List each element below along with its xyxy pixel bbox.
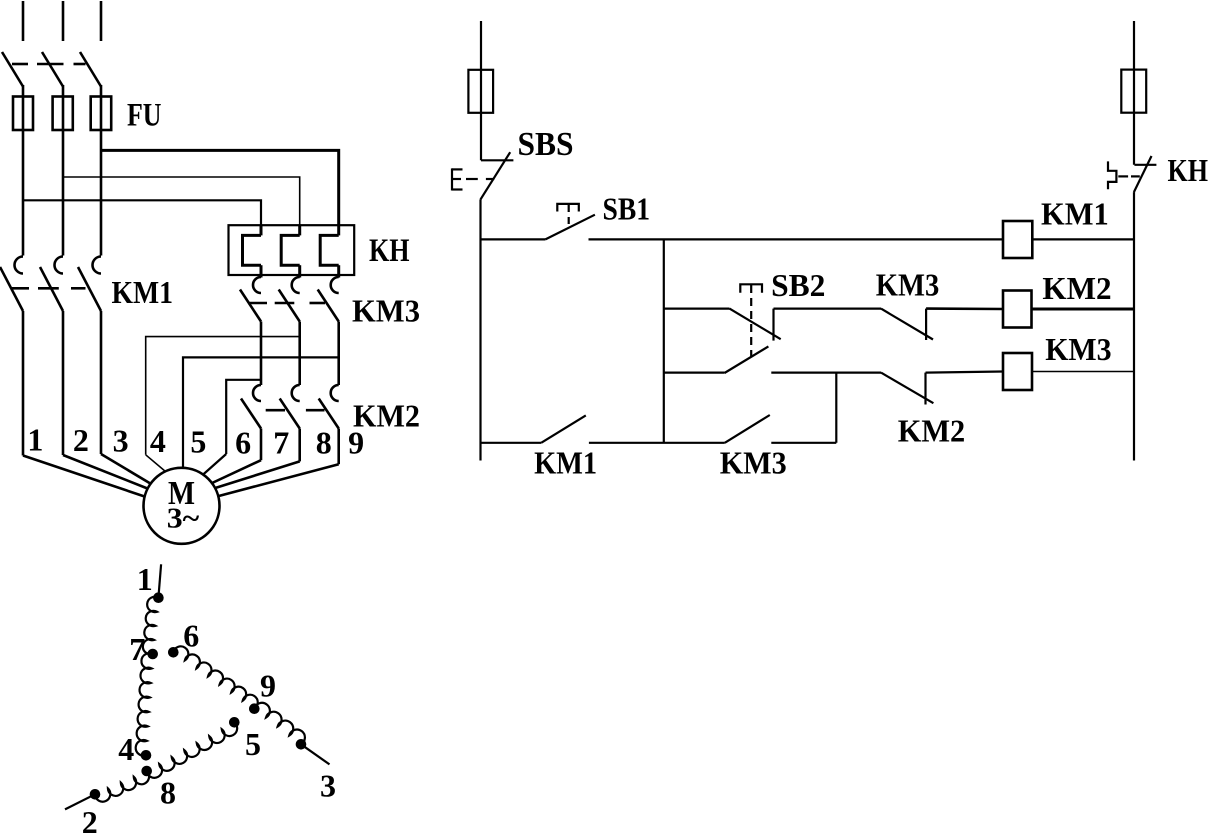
node terminal 7 [147, 649, 158, 660]
pushbutton SB1 actuator [557, 204, 579, 227]
wire pole1 through fuse [22, 85, 25, 256]
pushbutton SB2 NO blade (rung3) [725, 346, 769, 373]
wire right control rail [1133, 192, 1135, 460]
svg-text:1: 1 [27, 422, 43, 458]
node terminal 3 [296, 739, 307, 750]
svg-text:KH: KH [1168, 152, 1208, 188]
KH actuator dashed link [1118, 175, 1140, 177]
wire L2 supply stub [62, 1, 65, 41]
wire L1 supply stub [22, 1, 25, 41]
wire motor lead 1 [23, 311, 152, 499]
wire winding terminal 3 tail [301, 744, 330, 764]
svg-text:3: 3 [113, 423, 129, 459]
fuse FU pole 1 [13, 97, 33, 131]
svg-text:KM3: KM3 [1045, 331, 1111, 367]
wire rung2 left [664, 308, 730, 310]
winding coil 9 to 3 [254, 703, 305, 744]
coil KM3 [1003, 353, 1032, 390]
svg-text:7: 7 [129, 631, 145, 667]
wire motor lead 3 [101, 311, 152, 485]
pushbutton SB2 NC blade (rung2) [730, 309, 781, 340]
E dashed link [466, 178, 494, 180]
wire left control rail top [480, 21, 482, 160]
wire branch pole2 to KH element 2 [63, 177, 300, 226]
contactor KM2 main contact pole 1 [241, 385, 261, 429]
KH heater element 3 [320, 226, 339, 278]
wire rung3 middle [771, 372, 881, 374]
wire bottom rung left [481, 442, 542, 444]
contact KM2 NC (rung3) [881, 373, 933, 405]
KM1 linkage dashed line [12, 287, 86, 290]
contact KH NC (right rail) [1134, 156, 1157, 192]
wire rung3 left [664, 372, 725, 374]
wire rung3 to coil KM3 [926, 372, 1004, 373]
wire tap to motor lead 4 [146, 337, 300, 477]
svg-text:KM3: KM3 [720, 445, 787, 481]
node terminal 9 [249, 703, 260, 714]
node terminal 4 [141, 750, 152, 761]
svg-text:1: 1 [137, 561, 153, 597]
svg-text:KM1: KM1 [112, 274, 174, 310]
svg-text:9: 9 [348, 425, 364, 461]
svg-text:6: 6 [183, 618, 199, 654]
contact KM1 NO (bottom rung) blade [541, 415, 586, 442]
svg-text:3: 3 [320, 768, 336, 804]
KM3 linkage dashed line [248, 302, 325, 305]
wire bottom rung middle [589, 442, 725, 444]
svg-text:KM2: KM2 [898, 413, 966, 449]
disconnect switch QS pole 3 blade [80, 52, 101, 87]
svg-text:SB1: SB1 [603, 191, 651, 227]
contactor KM2 main contact pole 3 [319, 385, 339, 429]
svg-text:7: 7 [273, 425, 289, 461]
wire motor lead 9 [215, 429, 339, 498]
svg-text:KM3: KM3 [352, 293, 420, 329]
svg-text:KM3: KM3 [876, 267, 940, 303]
pushbutton SB2 actuator [740, 284, 762, 356]
fuse FU control left [468, 70, 493, 113]
svg-text:KM1: KM1 [1041, 196, 1109, 232]
svg-text:KH: KH [369, 233, 410, 269]
fuse FU control right [1121, 70, 1146, 113]
svg-text:KM2: KM2 [1042, 270, 1111, 306]
svg-text:FU: FU [127, 98, 162, 134]
svg-text:5: 5 [190, 424, 206, 460]
svg-text:8: 8 [316, 425, 332, 461]
disconnect switch QS linkage dashed line [12, 63, 86, 66]
node terminal 8 [141, 766, 152, 777]
KH heater element 2 [281, 226, 300, 278]
node terminal 2 [90, 789, 101, 800]
wire branch vertical after SB1 [663, 239, 665, 442]
svg-text:4: 4 [150, 423, 166, 459]
svg-text:2: 2 [73, 422, 89, 458]
KH thermal actuator hook [1108, 161, 1116, 189]
wire branch pole3 to KH element 3 [101, 150, 339, 226]
switch SBS [481, 152, 514, 199]
disconnect switch QS pole 1 blade [2, 52, 23, 87]
KM2 linkage dashed line [266, 409, 325, 412]
wire right control rail top [1133, 21, 1135, 165]
wire branch pole1 to KH element 1 [23, 200, 261, 226]
wire winding terminal 1 tail [158, 564, 161, 597]
contactor KM3 main contact pole 1 [240, 277, 261, 322]
wire KM3 pole3 down to KM2 pole3 [337, 322, 340, 386]
wire rung1 to coil KM1 [589, 238, 1004, 240]
wire coil KM1 to right rail [1032, 238, 1134, 240]
contactor KM2 main contact pole 2 [280, 385, 300, 429]
node terminal 1 [153, 592, 164, 603]
wire winding terminal 2 tail [65, 794, 95, 809]
svg-text:9: 9 [260, 668, 276, 704]
fuse FU pole 3 [91, 97, 112, 131]
wire riser to rung3 [835, 373, 837, 443]
svg-text:4: 4 [118, 731, 134, 767]
svg-text:3~: 3~ [167, 503, 200, 535]
wire coil KM2 to right rail [1032, 308, 1135, 311]
winding coil 8 to 5 [147, 722, 237, 778]
wire rung2 middle [774, 308, 882, 310]
svg-text:6: 6 [235, 425, 251, 461]
node terminal 6 [168, 647, 179, 658]
wire tap to motor lead 5 [183, 357, 339, 475]
svg-text:KM1: KM1 [534, 445, 597, 481]
contact KM3 NO (bottom rung) blade [725, 415, 770, 443]
contactor KM3 main contact pole 3 [318, 277, 339, 322]
svg-text:SBS: SBS [518, 126, 574, 163]
fuse FU pole 2 [53, 97, 73, 131]
svg-text:8: 8 [160, 774, 176, 810]
wire L3 supply stub [100, 1, 103, 41]
contactor KM1 main contact pole 1 [0, 257, 23, 312]
contact KM3 NC (rung2) [881, 309, 933, 340]
winding coil 2 to 8 [95, 771, 149, 802]
wire motor lead 8 [212, 429, 300, 490]
motor M 3~ circle [144, 468, 220, 544]
coil KM2 [1003, 291, 1032, 328]
pushbutton SB1 blade [545, 215, 595, 240]
symbol E emergency actuator [452, 168, 463, 190]
wire KM3 pole1 down to KM2 pole1 [260, 322, 263, 386]
wire tap to motor lead 6 [202, 380, 261, 476]
wire rung2 to coil KM2 [926, 307, 1003, 310]
wire left control rail [479, 199, 481, 460]
winding coil 1 to 7 [143, 597, 159, 654]
svg-text:5: 5 [245, 726, 261, 762]
contactor KM1 main contact pole 3 [78, 257, 101, 312]
wire motor lead 2 [63, 311, 150, 490]
wire pole2 through fuse [62, 85, 65, 256]
winding coil 6 to 9 [173, 646, 257, 708]
thermal relay KH heater box [229, 225, 355, 275]
wire KM3 pole2 down to KM2 pole2 [298, 322, 301, 386]
SB2 rung2 terminal tick [772, 309, 774, 341]
wire motor lead 7 [211, 429, 261, 484]
node terminal 5 [229, 717, 240, 728]
contactor KM1 main contact pole 2 [40, 257, 63, 312]
wire coil KM3 to right rail [1032, 371, 1134, 373]
contactor KM3 main contact pole 2 [279, 277, 300, 322]
coil KM1 [1003, 221, 1032, 258]
wire rung1 left [481, 238, 545, 240]
KH heater element 1 [243, 226, 262, 278]
disconnect switch QS pole 2 blade [42, 52, 63, 87]
wire bottom rung right [771, 442, 836, 444]
svg-text:2: 2 [82, 804, 98, 833]
winding coil 7 to 4 [136, 653, 153, 755]
svg-text:SB2: SB2 [771, 267, 825, 303]
wire pole3 through fuse [100, 85, 103, 256]
